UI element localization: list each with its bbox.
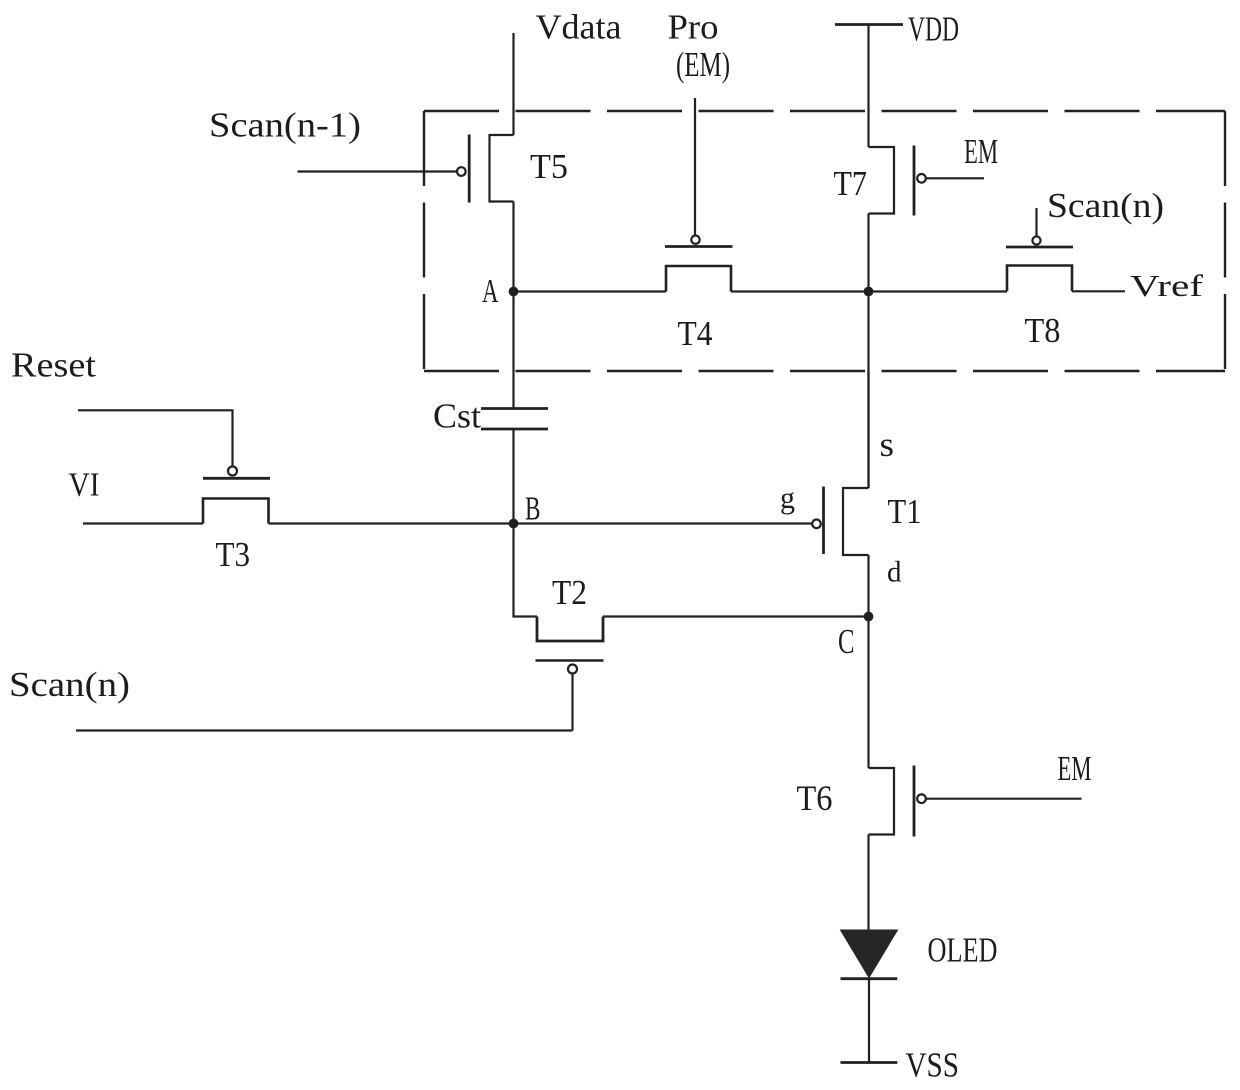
wire T8 to Vref xyxy=(1072,290,1125,292)
transistor T8 xyxy=(1006,208,1073,291)
svg-text:VDD: VDD xyxy=(908,10,959,49)
svg-text:OLED: OLED xyxy=(928,931,998,970)
svg-text:A: A xyxy=(482,273,499,310)
svg-text:Scan(n): Scan(n) xyxy=(9,665,130,704)
svg-text:Scan(n-1): Scan(n-1) xyxy=(209,106,361,145)
svg-text:EM: EM xyxy=(964,132,998,171)
svg-text:VSS: VSS xyxy=(906,1046,960,1085)
wire Scan(n) to T2 gate xyxy=(76,729,573,731)
power VSS bar xyxy=(841,1061,898,1064)
capacitor Cst xyxy=(481,409,548,430)
svg-text:Reset: Reset xyxy=(11,346,96,385)
wire T7 to node xyxy=(867,214,869,292)
dashed compensation block box xyxy=(424,111,1225,371)
transistor T6 xyxy=(869,766,926,837)
wire VDD lead xyxy=(867,25,869,148)
wire T6 to OLED xyxy=(867,835,869,931)
wire Reset xyxy=(78,410,233,466)
svg-text:Vref: Vref xyxy=(1130,268,1204,303)
wire VI to T3 xyxy=(83,522,203,524)
wire T1 source up xyxy=(867,371,869,488)
transistor T5 xyxy=(457,135,514,203)
wire node B down to T2 xyxy=(514,524,538,617)
wire T3 to node B xyxy=(269,522,514,524)
transistor T7 xyxy=(869,146,926,216)
svg-text:T6: T6 xyxy=(797,778,833,818)
wire T2 to node C xyxy=(603,615,869,617)
wire node B to T1 gate xyxy=(514,522,813,524)
svg-text:B: B xyxy=(525,491,541,528)
svg-text:EM: EM xyxy=(1058,749,1092,788)
wire Pro lead xyxy=(694,98,696,235)
diode OLED xyxy=(841,930,898,979)
svg-text:Scan(n): Scan(n) xyxy=(1047,186,1164,225)
svg-text:g: g xyxy=(780,480,795,515)
transistor T3 xyxy=(203,467,270,524)
node A xyxy=(509,287,519,297)
svg-text:T5: T5 xyxy=(530,147,568,186)
transistor T1 xyxy=(812,487,868,556)
wire T1 drain to node C xyxy=(867,555,869,617)
wire T6 gate to EM xyxy=(926,798,1082,800)
wire Vdata lead xyxy=(512,33,514,135)
svg-text:d: d xyxy=(887,556,902,589)
node B xyxy=(509,519,519,529)
wire OLED to VSS xyxy=(868,979,870,1062)
node C xyxy=(864,612,874,622)
svg-text:T8: T8 xyxy=(1025,311,1061,350)
svg-text:T1: T1 xyxy=(888,492,922,531)
wire Scan(n-1) to T5 gate xyxy=(298,170,458,172)
svg-text:C: C xyxy=(838,622,855,661)
wire node to T8 xyxy=(869,290,1008,292)
wire node C down to T6 xyxy=(867,617,869,769)
svg-text:Pro: Pro xyxy=(668,8,719,47)
wire T4 to VDD column xyxy=(731,290,869,292)
wire node A to T4 xyxy=(514,290,667,292)
transistor T4 xyxy=(665,236,733,292)
transistor T2 xyxy=(536,617,604,731)
svg-text:(EM): (EM) xyxy=(676,45,730,84)
svg-text:T2: T2 xyxy=(552,573,587,612)
wire T7 gate to EM xyxy=(926,177,984,179)
wire Cst to node B xyxy=(512,429,514,524)
svg-text:Cst: Cst xyxy=(433,397,481,436)
svg-text:T7: T7 xyxy=(834,164,868,203)
wire T5 to node A xyxy=(512,202,514,409)
node at VDD column and Vref row xyxy=(864,287,874,297)
svg-text:VI: VI xyxy=(69,467,100,504)
svg-text:s: s xyxy=(880,425,895,464)
power VDD bar xyxy=(835,23,903,26)
svg-text:T3: T3 xyxy=(216,535,251,574)
wire node down to T1 xyxy=(867,292,869,489)
svg-text:Vdata: Vdata xyxy=(536,8,622,47)
svg-text:T4: T4 xyxy=(678,314,713,353)
